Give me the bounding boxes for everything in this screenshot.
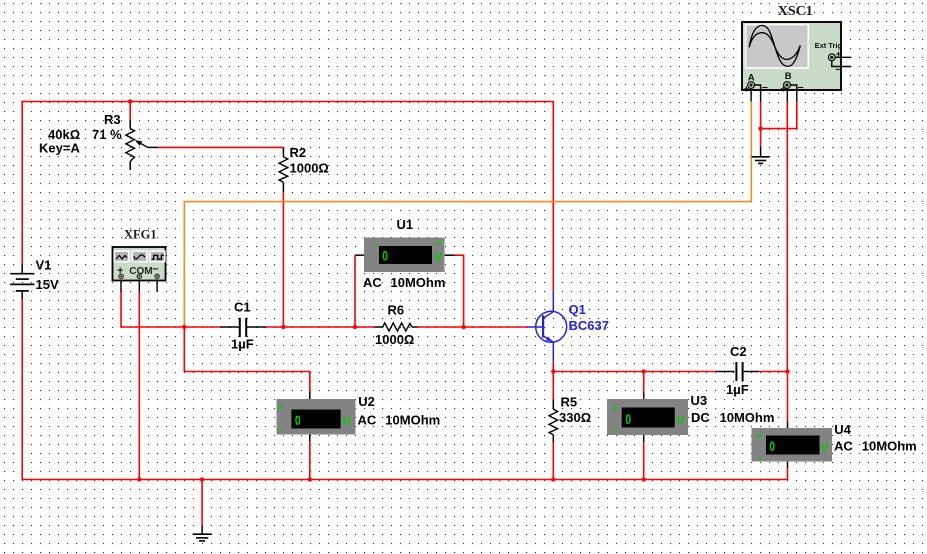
svg-text:0: 0 [382,249,388,264]
wire input node to U2 top [184,327,309,392]
resistor R2 [279,148,288,192]
wire U1 right to mid node [455,255,464,327]
svg-text:330Ω: 330Ω [559,410,591,425]
multimeter U2 [277,392,356,442]
wire U1 left to mid node [354,255,356,327]
svg-text:U1: U1 [397,217,414,232]
junction R2 bottom [281,325,285,329]
svg-text:1000Ω: 1000Ω [290,160,329,175]
capacitor C1 [220,318,266,337]
svg-text:+: + [743,83,749,95]
wire R6 to Q1 base [418,326,527,328]
svg-text:U2: U2 [358,394,375,409]
wire scope A minus to scope ground [760,102,762,129]
wire mid node C1 right to R6 [266,326,374,328]
svg-text:R5: R5 [561,394,578,409]
svg-text:0: 0 [625,412,631,427]
junction output node C2 [785,369,789,373]
wire U3 bottom to rail [643,442,645,480]
svg-text:1µF: 1µF [231,337,254,352]
junction U3 top node [642,369,646,373]
wire output node to U4 [787,372,789,422]
wire bottom rail V1- ground net [22,300,787,480]
svg-text:XFG1: XFG1 [124,228,157,242]
svg-text:XSC1: XSC1 [778,4,813,19]
resistor R6 [375,323,418,331]
junction U1 left [353,325,357,329]
svg-text:C1: C1 [234,300,251,315]
svg-text:Key=A: Key=A [39,141,80,156]
svg-text:V: V [821,441,829,455]
multimeter U1 [355,238,455,273]
svg-text:AC: AC [358,413,377,428]
wire R3 wiper to R2 [158,147,284,150]
svg-text:−: − [756,454,762,465]
svg-text:−: − [798,82,804,94]
svg-text:+: + [780,83,786,95]
svg-text:R2: R2 [290,145,307,160]
oscilloscope XSC1 [742,22,851,102]
svg-text:U3: U3 [691,393,708,408]
capacitor C2 [716,362,759,381]
svg-text:BC637: BC637 [569,318,609,333]
svg-text:10MOhm: 10MOhm [385,413,440,428]
wire Q1 emitter to output node [553,362,716,371]
svg-text:+: + [836,49,842,60]
wire R5 bottom to rail [552,443,554,480]
svg-text:R6: R6 [388,303,405,318]
junction input node [182,325,186,329]
wire scope B down to output node [786,102,788,372]
junction ground bottom rail [200,477,204,481]
svg-text:+: + [612,403,618,414]
function generator XFG1 [113,247,166,292]
svg-text:0: 0 [769,439,775,454]
svg-text:10MOhm: 10MOhm [862,439,917,454]
svg-text:V: V [343,415,351,429]
junction COM bottom rail [137,477,141,481]
svg-text:+: + [278,403,284,414]
svg-text:−: − [374,241,380,252]
junction U2 bottom rail [308,477,312,481]
svg-text:U4: U4 [834,422,851,437]
junction U3 bottom rail [642,477,646,481]
svg-text:0: 0 [295,413,301,428]
svg-text:10MOhm: 10MOhm [391,275,446,290]
wire orange scope A to input node [184,102,751,328]
wire U3 top [643,372,645,393]
svg-text:V: V [677,414,685,428]
svg-text:−: − [612,427,618,438]
junction U1 right [461,325,465,329]
svg-text:1µF: 1µF [726,382,749,397]
svg-text:R3: R3 [104,112,121,127]
svg-text:C2: C2 [730,344,747,359]
ground main [193,526,212,541]
wire U2 bottom to rail [309,442,311,480]
resistor R5 [549,400,558,443]
wire XFG1 COM to bottom rail [138,292,140,480]
wire C2 right to output junction [759,371,787,373]
svg-text:+: + [436,239,442,250]
svg-text:AC: AC [834,439,853,454]
transistor Q1 BC637 [527,291,567,363]
svg-text:71 %: 71 % [92,127,122,142]
node junction R3 top on rail [128,99,132,103]
wire R5 top [552,372,554,400]
wire R2 bottom to mid node [282,192,284,327]
multimeter U4 [752,422,833,469]
potentiometer R3 [126,120,158,170]
svg-text:AC: AC [363,275,382,290]
svg-text:DC: DC [691,410,710,425]
svg-text:Q1: Q1 [569,302,586,317]
svg-text:10MOhm: 10MOhm [720,410,775,425]
wire XFG1 plus to mid node [121,292,220,327]
battery V1 [10,264,34,299]
multimeter U3 [607,392,688,442]
svg-text:+: + [756,431,762,442]
wire R3 top lead [129,102,131,120]
svg-text:V1: V1 [36,258,52,273]
svg-text:−: − [762,82,768,94]
svg-text:1000Ω: 1000Ω [375,332,414,347]
junction emitter node R5 [551,369,555,373]
junction scope ground node [758,126,762,130]
ground scope [752,146,770,163]
svg-text:−: − [278,426,284,437]
svg-text:15V: 15V [36,277,59,292]
junction R5 bottom rail [551,477,555,481]
wire scope ground stem [760,129,762,147]
wire scope B minus to scope ground [761,102,797,129]
wire ground stem main [201,480,203,526]
svg-text:V: V [434,250,442,264]
wire top rail V1+ to Q1 collector [22,102,553,291]
svg-text:B: B [785,71,792,82]
